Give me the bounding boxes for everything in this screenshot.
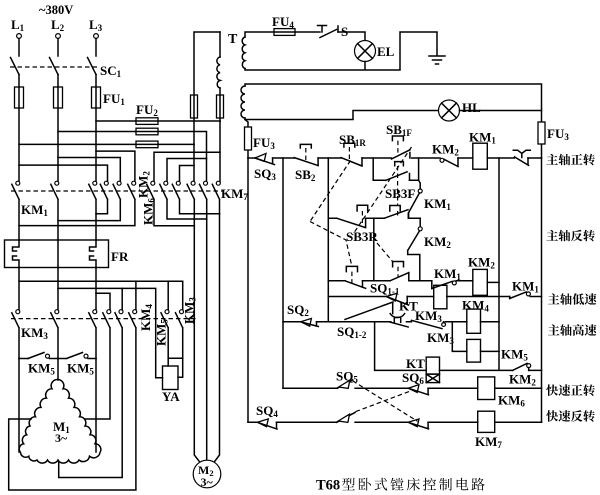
limit switch SQ1-2 bbox=[337, 302, 393, 340]
dashed cross SQ4-2 to row5 NC bbox=[356, 391, 410, 411]
svg-text:HL: HL bbox=[462, 100, 481, 115]
contact KM6 pole2 bbox=[160, 181, 207, 219]
coil KM2 bbox=[468, 255, 495, 296]
svg-text:SB3F: SB3F bbox=[385, 186, 415, 201]
wire M2 column 1 bbox=[194, 226, 200, 463]
contact SQ4-2 NC row5 bbox=[408, 385, 428, 395]
wire columns below FR bbox=[19, 268, 96, 311]
bracket below SB1F bbox=[395, 162, 404, 166]
KT row wire bbox=[440, 369, 542, 371]
coil KM1 bbox=[469, 130, 496, 170]
fuse FU1 through wires bbox=[19, 87, 96, 108]
wire L1 tap row to junction A bbox=[19, 143, 194, 145]
button SB1F bbox=[386, 122, 412, 159]
svg-text:SB3R: SB3R bbox=[346, 229, 378, 244]
terminal L1 bbox=[11, 17, 25, 38]
fuse transformer primary left bbox=[191, 95, 198, 118]
fuse FU3 left bbox=[245, 127, 252, 150]
contact KM4 pole2 bbox=[59, 310, 123, 478]
svg-text:EL: EL bbox=[377, 44, 395, 59]
limit switch SQ1-1 bbox=[370, 281, 409, 306]
wire secondary1 top to FU4 bbox=[245, 32, 320, 37]
wire primary right up to winding bbox=[219, 32, 221, 121]
stem SB1R-2 bbox=[361, 211, 363, 223]
fuse FU1 phase1 bbox=[15, 87, 24, 108]
contact KM7 pole1 bbox=[187, 181, 195, 226]
fuse FU2 c bbox=[136, 141, 158, 148]
row5 wire bbox=[283, 387, 542, 389]
fuse FU2 a bbox=[136, 118, 158, 125]
contact KM2 pole2 bbox=[58, 181, 121, 220]
contact SQ5-2 NO row6 bbox=[337, 412, 355, 422]
limit switch SQ5 bbox=[336, 369, 358, 389]
contact KM7 pole2 bbox=[200, 181, 208, 219]
contact SQ4-3 NC row6 bbox=[408, 419, 428, 429]
contact SB3R NC row2b bbox=[345, 281, 366, 289]
wire H1 drop KM5a pole bbox=[167, 281, 169, 310]
contact KM7 pole3 bbox=[212, 181, 220, 214]
wire H1 tap bbox=[19, 281, 183, 310]
limit switch SQ4 bbox=[256, 403, 278, 429]
label row6 rapid-reverse bbox=[546, 410, 595, 422]
wire junction B down to KM7 pole3 bbox=[219, 121, 221, 182]
contact KM1 pole1 bbox=[12, 181, 20, 240]
row2 wire bbox=[328, 214, 408, 219]
contact SB1R-2 NC bbox=[337, 218, 366, 227]
svg-text:KT: KT bbox=[406, 356, 425, 371]
svg-text:T68: T68 bbox=[316, 478, 340, 494]
lamp HL bbox=[439, 100, 482, 121]
stubs coils right to common vertical bbox=[481, 322, 500, 352]
linkage dashes bbox=[11, 190, 224, 192]
wire H3 tap bbox=[96, 293, 110, 310]
wire L2 column bbox=[57, 75, 59, 183]
FR heater phase3 bbox=[90, 240, 97, 268]
transformer T primary winding bbox=[217, 57, 220, 88]
row3 wire bbox=[328, 296, 541, 298]
ground bbox=[429, 56, 445, 64]
stub KM2 coil right bbox=[487, 281, 499, 283]
vertical V3b bbox=[373, 218, 375, 281]
coil KM6 bbox=[478, 377, 526, 409]
cap SB3R bbox=[346, 266, 357, 271]
contact KM2 pole1 bbox=[96, 181, 108, 214]
wire KM6 pole1 jumper bbox=[154, 152, 220, 182]
stem SB1F lower bbox=[397, 166, 399, 216]
contact KM5 right bbox=[58, 353, 96, 359]
switch SC1 pole 2 bbox=[50, 39, 59, 75]
contact KM4 pole1 bbox=[86, 310, 111, 419]
contact SB3F NO bbox=[385, 172, 415, 201]
cap above SB1R-2 bbox=[357, 205, 368, 211]
wire H2 tap bbox=[58, 288, 163, 377]
wire H1 drop KM4 pole3 bbox=[135, 281, 137, 310]
contact KM2 NC KT row bbox=[509, 363, 536, 387]
svg-text:~380V: ~380V bbox=[39, 3, 73, 17]
vertical V3 SB3F branch bbox=[373, 158, 418, 180]
wire column1 to M1 bbox=[18, 359, 20, 453]
wire secondary2 bottom bbox=[245, 111, 438, 120]
switch SC1 pole 1 bbox=[11, 39, 20, 75]
wire YA top junction bbox=[168, 357, 183, 359]
limit switch SQ3 bbox=[254, 153, 276, 182]
label row4 spindle-high bbox=[548, 324, 597, 336]
contact KM3 pole1 bbox=[12, 310, 20, 359]
coil KT row3 bbox=[399, 285, 447, 313]
wire KM1 coil right to common vertical bbox=[498, 158, 500, 370]
lamp EL bbox=[355, 41, 395, 62]
wire KM6 pole2 jumper bbox=[167, 159, 207, 183]
wire FU3 left drop bbox=[245, 120, 248, 159]
contact KM3 pole2 bbox=[51, 310, 59, 359]
contact KM3 pole3 bbox=[89, 310, 97, 359]
contact KM3 NC row4 bbox=[411, 308, 454, 346]
label row2 spindle-reverse bbox=[546, 230, 594, 242]
dashed diag cap1 to SB3R bbox=[353, 147, 412, 235]
label row1 spindle-forward bbox=[546, 154, 594, 166]
coil KT2 bbox=[406, 356, 440, 374]
terminal L2 bbox=[51, 17, 65, 38]
fuse FU2 b bbox=[136, 128, 158, 135]
coil KM5 bbox=[467, 339, 529, 362]
cap SB1F-2 bbox=[390, 206, 400, 212]
SC1 linkage bbox=[10, 66, 99, 68]
button SB2 bbox=[294, 144, 318, 183]
vertical V1 bbox=[327, 158, 329, 322]
FR heater phase1 bbox=[13, 240, 20, 268]
branch to KM5 coil bbox=[452, 322, 467, 352]
switch SQ6 box bbox=[402, 370, 440, 386]
svg-text:YA: YA bbox=[162, 389, 180, 404]
label row3 spindle-low bbox=[548, 293, 597, 305]
thermal relay FR box bbox=[5, 240, 109, 268]
label row5 rapid-forward bbox=[546, 384, 595, 396]
switch SC1 pole 3 bbox=[88, 39, 97, 75]
wire junction A down to KM7 pole1 bbox=[193, 144, 195, 182]
row2b wire bbox=[328, 273, 473, 281]
row1 wire segs bbox=[248, 157, 542, 159]
wire EL bottom return bbox=[245, 32, 437, 70]
stem SB3R bbox=[351, 272, 353, 284]
fuse FU1 phase2 bbox=[54, 87, 63, 108]
wire L3 column bbox=[95, 75, 97, 183]
contact KM2 NC row1 bbox=[432, 142, 459, 167]
dashed diag vertex to SB3R bbox=[310, 222, 352, 267]
contact KM1 NO row2b bbox=[432, 266, 462, 289]
cascade KM1 aux bbox=[409, 180, 452, 218]
coil KM7 bbox=[475, 411, 502, 450]
dashed cross SQ5 to row6 NC bbox=[353, 381, 418, 422]
wire column3 to M1 bbox=[95, 359, 97, 453]
transformer T secondary 1 winding bbox=[242, 37, 245, 69]
button SB1R bbox=[339, 132, 366, 166]
cascade KM2 aux bbox=[408, 218, 452, 281]
contact KM5a (YA branch) bbox=[161, 310, 169, 366]
contact KT delayed bbox=[390, 314, 408, 327]
motor M2 bbox=[193, 460, 221, 489]
right rail bbox=[541, 158, 543, 422]
wire H2 drop KM4 pole2 bbox=[121, 288, 123, 310]
contact KM1 pole3 bbox=[89, 181, 97, 240]
svg-text:T: T bbox=[228, 32, 238, 47]
wire secondary2 top rail bbox=[245, 84, 542, 158]
dashed diag SB1R to vertex bbox=[310, 161, 351, 222]
contact KM2 pole3 bbox=[19, 181, 136, 225]
contact KM3a (YA branch) bbox=[176, 310, 184, 378]
coil KM4 bbox=[462, 298, 489, 334]
wire KM6 pole3 jumper bbox=[180, 166, 195, 183]
cap SB3R-2 bbox=[393, 262, 404, 267]
left rail bbox=[247, 158, 249, 422]
wire HL to right rail bbox=[460, 110, 542, 112]
fuse FU1 phase3 bbox=[92, 87, 101, 108]
svg-text:3~: 3~ bbox=[55, 431, 68, 445]
fuse FU3 right bbox=[538, 122, 545, 144]
terminal L3 bbox=[89, 17, 103, 38]
contact KM1 NO row3 bbox=[510, 279, 540, 299]
wire L3 tap row to junction B bbox=[96, 120, 220, 122]
linkage dashes KM3 row bbox=[11, 318, 196, 320]
FR phase2 through bbox=[57, 240, 59, 268]
wire L2 tap row to KM7 pole2 bbox=[58, 132, 207, 183]
contact SB3R-2 NO row2b bbox=[390, 273, 409, 281]
dashed diag SB3R to cap SB3R-2 bbox=[377, 243, 393, 262]
stem SB3R-2 bbox=[397, 267, 399, 277]
contact KM1 pole2 bbox=[51, 181, 59, 240]
svg-text:FR: FR bbox=[111, 249, 129, 264]
contact KM6 pole1 bbox=[147, 181, 195, 226]
coil YA bbox=[163, 366, 179, 390]
row6 wire bbox=[248, 421, 542, 423]
wire M2 column 3 bbox=[214, 214, 220, 463]
wire M2 column 2 bbox=[206, 219, 208, 461]
contact KM6 pole3 bbox=[172, 181, 219, 214]
fuse transformer primary right bbox=[217, 95, 224, 118]
vertical V2 bbox=[282, 158, 284, 388]
fuse FU4 bbox=[274, 29, 295, 36]
wire L1 jumper to KM2 pole1 bbox=[19, 165, 108, 182]
contact SB1F-2 NO bbox=[384, 210, 408, 219]
contact KM5 left bbox=[28, 353, 58, 359]
switch S bbox=[318, 24, 349, 39]
vertical V3c to KT row bbox=[375, 322, 427, 371]
row4 wire bbox=[283, 321, 467, 323]
limit switch SQ2 bbox=[287, 302, 318, 327]
wire L1 column bbox=[18, 75, 20, 183]
contact KM4 pole3 bbox=[9, 310, 137, 490]
wire column2 to M1 apex bbox=[57, 359, 59, 381]
wire L3 jumper to KM2 pole3 bbox=[96, 151, 135, 182]
wire S to EL bbox=[338, 32, 365, 41]
wire KM5 row left bbox=[19, 358, 28, 360]
motor M1 winding cloud bbox=[19, 379, 101, 463]
contact FR NC row1 bbox=[513, 150, 530, 165]
wire primary left up bbox=[194, 32, 220, 144]
caption chinese bbox=[342, 478, 485, 491]
transformer T secondary 2 winding bbox=[241, 86, 245, 118]
wire L2 jumper to KM2 pole2 bbox=[58, 158, 120, 183]
svg-text:3~: 3~ bbox=[201, 475, 214, 489]
